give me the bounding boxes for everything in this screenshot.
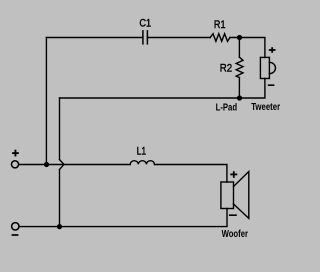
polarity - of input: [12, 234, 19, 236]
node D junction dot (- rail / tweeter return): [57, 224, 62, 229]
node A junction dot (R1 / R2 / tweeter): [237, 35, 242, 40]
inductor L1 (three humps): [130, 161, 154, 165]
svg-text:C1: C1: [139, 18, 151, 30]
wire: tweeter return rail (down, left along y=98, down left side with hop): [60, 79, 265, 227]
svg-text:L1: L1: [137, 146, 147, 158]
polarity + of woofer: [230, 171, 237, 178]
svg-text:Woofer: Woofer: [222, 229, 248, 240]
node B junction dot (R2 / tweeter return): [237, 95, 242, 100]
input terminal + (open circle): [11, 161, 18, 168]
svg-text:L-Pad: L-Pad: [216, 103, 238, 114]
wire: R1 through node A to tweeter drop: [230, 38, 265, 58]
svg-text:R2: R2: [220, 63, 232, 75]
wire hop where return rail crosses + rail: [60, 160, 64, 170]
wire: C1 to R1: [147, 37, 210, 39]
wire: left vertical branch (top rail down to + input rail): [45, 38, 47, 165]
woofer SP2 (rectangle with horn): [221, 172, 249, 219]
svg-text:R1: R1: [214, 19, 226, 31]
resistor R2 (with connecting stubs): [236, 38, 243, 99]
polarity - of woofer: [229, 214, 237, 216]
polarity + of input: [12, 150, 19, 157]
tweeter SP1 (rectangle with dome): [260, 57, 275, 78]
input terminal - (open circle): [12, 223, 19, 230]
resistor R1: [210, 34, 230, 42]
wire: L1 to woofer drop: [155, 165, 227, 183]
node C junction dot (+ rail / left vertical branch): [44, 162, 49, 167]
polarity + of tweeter: [269, 47, 276, 53]
wire: + input rail to L1: [19, 164, 130, 166]
polarity - of tweeter: [268, 84, 275, 86]
wire: - input rail to woofer: [20, 209, 227, 227]
svg-text:Tweeter: Tweeter: [251, 102, 280, 113]
wire: top rail from left corner to C1: [46, 37, 142, 39]
capacitor C1: [143, 30, 148, 44]
